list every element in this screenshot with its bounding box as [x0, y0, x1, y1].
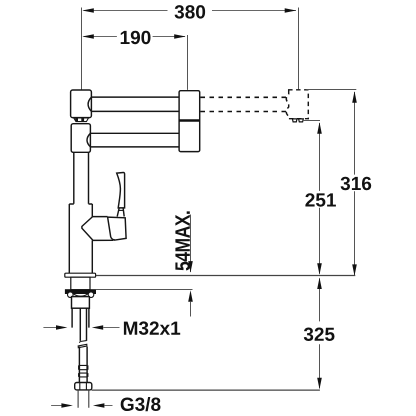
G3/8 nut inner lines	[80, 383, 87, 390]
lower tail pipe	[79, 347, 87, 383]
arrow G3/8 right	[93, 403, 105, 408]
cartridge cap	[108, 217, 127, 240]
arrow M32 right	[92, 325, 103, 330]
dashed nozzle outline	[286, 90, 308, 119]
extension line nozzle top (316)	[306, 89, 356, 91]
G3/8 nut	[75, 383, 92, 390]
dimension line 325	[319, 278, 321, 321]
extension line nozzle bottom (251)	[303, 120, 320, 122]
deck reference line	[96, 275, 356, 277]
washer arc middle	[73, 294, 88, 296]
arrow 325 up	[317, 278, 322, 290]
54MAX dimension line lower tail	[190, 302, 192, 317]
upper-left swivel block	[71, 90, 92, 118]
dimension line 251	[319, 123, 321, 191]
spout head polygon	[82, 217, 114, 241]
center joint block	[179, 91, 200, 152]
arrow 380 right	[285, 8, 297, 13]
locknut-top extension line (54MAX)	[96, 289, 193, 291]
label 380	[175, 5, 206, 19]
riser column	[73, 152, 75, 204]
dimension line 380	[84, 10, 168, 12]
arrow 316 down	[352, 264, 357, 276]
G3/8 dimension right tail	[104, 405, 112, 407]
body column left edge	[68, 204, 70, 273]
lever blade	[117, 172, 125, 207]
arrow 190 right	[174, 34, 186, 39]
lever stem	[117, 208, 124, 217]
dashed tube line top	[201, 96, 287, 98]
under-deck spacer	[71, 277, 90, 290]
pipe break	[78, 341, 87, 348]
thread ticks	[79, 365, 87, 377]
inner supply tube	[80, 308, 86, 341]
dimension line 316	[354, 92, 356, 175]
shank block	[72, 297, 90, 309]
upper arm tube bottom line	[91, 110, 179, 112]
arrow 251 up	[317, 122, 322, 134]
dimension line 190	[84, 36, 117, 38]
washer circle right	[88, 292, 94, 298]
label G3/8	[121, 397, 161, 411]
upper arm ball end left	[88, 97, 91, 111]
head-cartridge separation line	[108, 217, 115, 240]
arrow 380 left	[82, 8, 94, 13]
G3/8 dimension left tail	[51, 405, 62, 407]
nub tab 1	[75, 118, 78, 121]
upper arm tube top line	[91, 96, 179, 98]
nub tab 2	[81, 118, 84, 121]
arrow 54MAX down	[188, 261, 193, 273]
M32x1 dimension left tail	[43, 327, 58, 329]
arrow 54MAX up	[188, 290, 193, 302]
lower arm tube top line	[90, 132, 179, 134]
arrow 325 down	[317, 378, 322, 390]
lever stem tick	[118, 209, 124, 211]
body shoulder	[69, 203, 92, 205]
nozzle tab 1	[292, 119, 297, 122]
label 325	[304, 328, 335, 342]
body column right edge lower	[91, 240, 93, 273]
label 251	[305, 193, 336, 207]
bottom reference line	[92, 389, 320, 391]
pipe below nut / G3/8 extension lines	[78, 390, 89, 408]
M32 thread outer lines	[72, 308, 89, 327]
lower-left swivel block	[71, 124, 90, 153]
54MAX dimension line upper	[190, 215, 192, 273]
thread side bumps	[79, 365, 88, 377]
washer circle left	[68, 292, 74, 298]
nozzle tab 2	[299, 119, 304, 122]
label 54MAX. (rotated)	[175, 211, 190, 270]
extension line right (x=298)	[298, 8, 300, 90]
body column right edge upper	[91, 204, 93, 217]
nub connector strip	[74, 118, 89, 122]
arrow 316 up	[352, 91, 357, 103]
center joint divider	[179, 119, 200, 122]
arrow 251 down	[317, 263, 322, 275]
arrow 190 left	[82, 34, 94, 39]
lower arm ball end right	[180, 133, 183, 147]
label 316	[341, 177, 372, 191]
label 190	[121, 31, 151, 45]
extension line left (x=81)	[81, 8, 83, 90]
extension line mid (x=187)	[187, 35, 189, 90]
dashed tube line bottom	[201, 111, 287, 113]
lower arm ball end left	[87, 133, 90, 147]
upper arm ball end right	[179, 97, 184, 111]
M32x1 dimension right tail	[103, 327, 119, 329]
arrow M32 left	[56, 325, 67, 330]
locknut bar	[65, 290, 95, 294]
deck flange	[65, 273, 96, 277]
lower arm tube bottom line	[90, 146, 179, 148]
label M32x1	[124, 321, 180, 335]
arrow G3/8 left	[61, 403, 73, 408]
